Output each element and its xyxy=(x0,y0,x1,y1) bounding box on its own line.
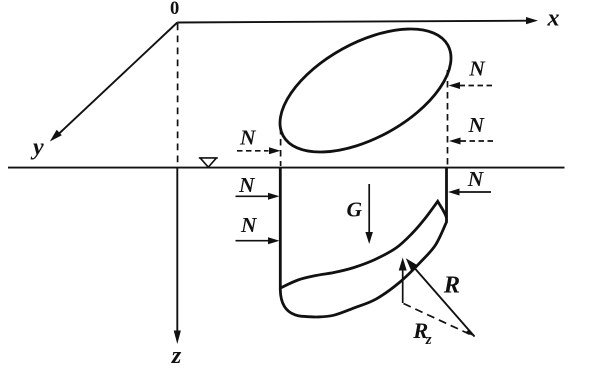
svg-text:0: 0 xyxy=(170,0,179,19)
svg-text:N: N xyxy=(240,213,258,237)
svg-text:z: z xyxy=(171,342,182,369)
svg-text:x: x xyxy=(547,6,560,32)
svg-text:N: N xyxy=(468,56,486,80)
svg-text:R: R xyxy=(443,272,460,299)
svg-text:N: N xyxy=(238,173,256,197)
svg-text:N: N xyxy=(467,167,485,191)
svg-text:y: y xyxy=(30,134,44,160)
svg-text:z: z xyxy=(425,332,432,348)
svg-text:N: N xyxy=(239,125,257,149)
svg-text:N: N xyxy=(468,113,486,137)
svg-text:G: G xyxy=(347,198,363,222)
